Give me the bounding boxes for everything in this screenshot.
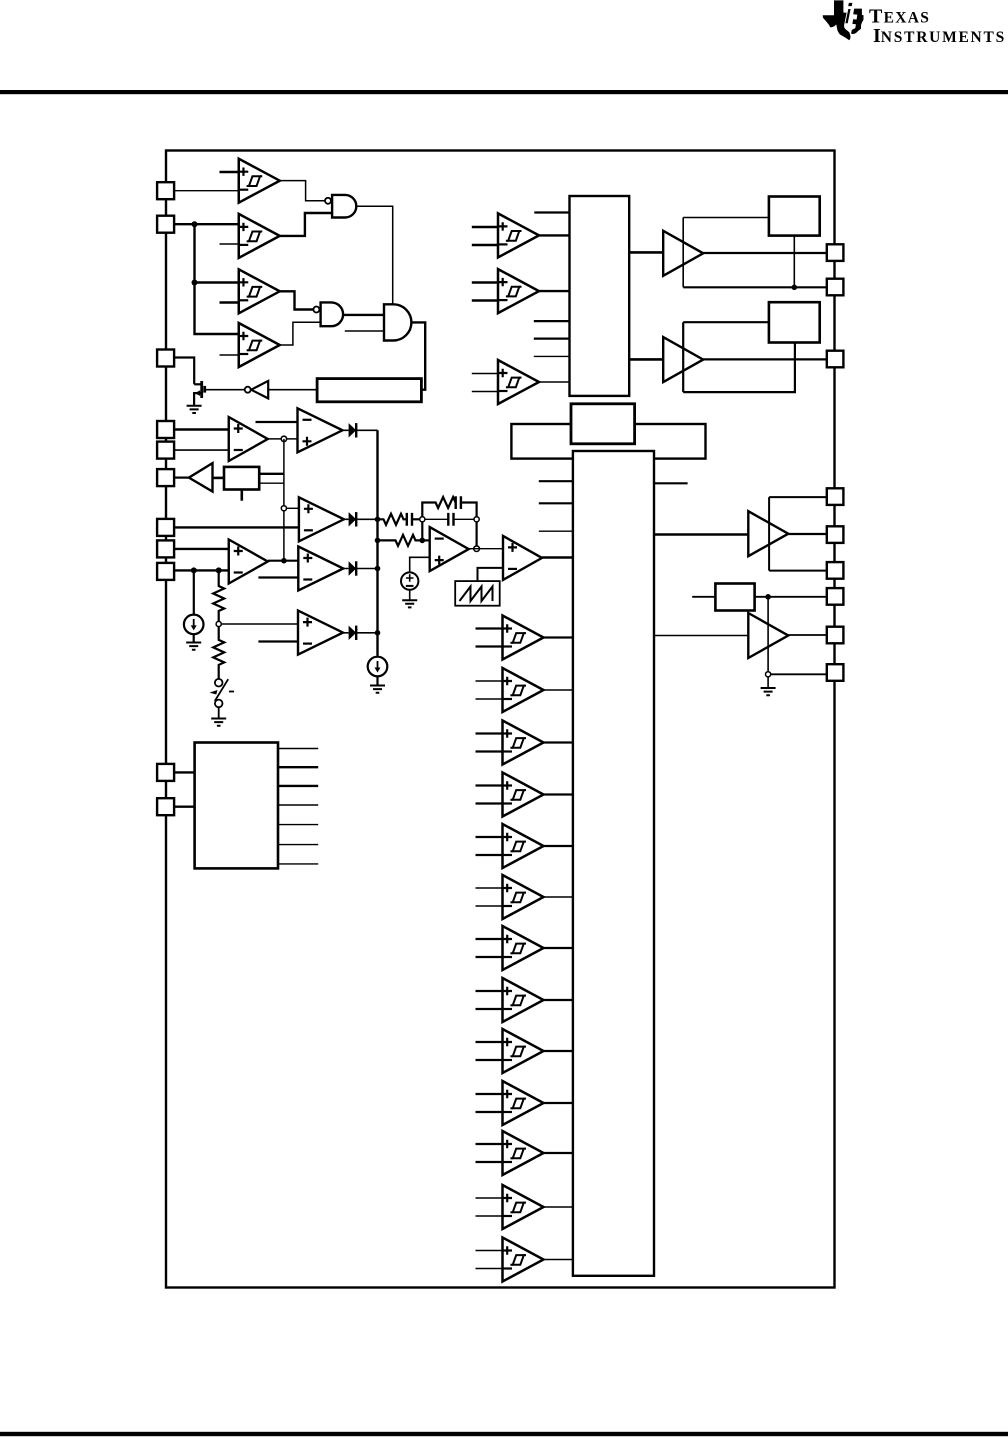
vertical rail from U1 output down to U3 output junction [283, 439, 285, 561]
wire T1 loop top to pin RA [769, 496, 827, 498]
wire C6a output [544, 896, 573, 898]
comparator C10a [503, 1081, 544, 1125]
wire BX1 output upper to rail [259, 473, 284, 475]
wire J2 to comparator C noninv input [195, 281, 239, 283]
wire T3 output to pin R1 [703, 252, 827, 254]
VREF plus glyph [406, 574, 414, 582]
ground G-I1 [186, 643, 201, 650]
node bus/error-amp row [375, 538, 381, 544]
wire C3a output [544, 741, 573, 743]
wire G1 output down to gate G3 top input [356, 206, 392, 304]
op-amp U5 [298, 611, 343, 655]
node BX7 stub on R2 wire [792, 285, 798, 291]
comparator C7a inverting stub [476, 956, 503, 958]
comparator H2 [498, 269, 539, 313]
comparator D [239, 323, 280, 367]
wire C4a output [544, 793, 573, 795]
wire P7 to op-amp U2b inverting (long) [174, 526, 299, 528]
wire R3 to capacitor C1 [406, 518, 407, 520]
bubble on G2 top input [313, 307, 319, 313]
comparator C2a noninv stub [476, 680, 503, 682]
pin P2 [157, 216, 174, 233]
wire U1 output to rail node [268, 438, 298, 440]
wire INV1 output to MOSFET gate [206, 389, 245, 391]
comparator C1a noninv stub [476, 627, 503, 629]
transistor Q1 [194, 381, 205, 406]
diode D3 [349, 561, 357, 575]
current source I1 [184, 615, 204, 635]
BX10 output stub 5 [278, 824, 318, 826]
wire U2 output through D1 to bus [343, 429, 378, 431]
wire G3 output to delay box right end [412, 322, 426, 389]
pin R2 [827, 279, 844, 296]
comparator C9a noninv stub [476, 1041, 503, 1043]
bubble on INV1 output [245, 387, 251, 393]
wire BX6 to driver T3 [629, 251, 663, 254]
op-amp U2b [299, 497, 344, 541]
wire U5 output through D4 to bus [343, 632, 378, 634]
wire C9a output [544, 1050, 573, 1052]
gate G2 AND with inverted top input [321, 302, 344, 326]
wire comparator B output to gate G1 bottom input [280, 213, 332, 236]
wire P5 to op-amp U1 inverting [174, 449, 229, 451]
VREF minus glyph [406, 585, 414, 587]
voltage source VREF [401, 572, 418, 589]
wire J3 down to current source I1 [193, 570, 195, 614]
wire C1 to node N1 [412, 518, 422, 520]
wire H2 output to BX6 [539, 290, 570, 292]
box BX2 [571, 404, 635, 444]
wire T4 loop bottom up to BX8 bottom [683, 343, 795, 393]
wire G3 third input stub [345, 330, 384, 332]
BX4 right stub [654, 482, 688, 484]
wire VREF to ground [409, 590, 411, 600]
comparator C4a noninv stub [476, 784, 503, 786]
BX6 left stub 4 [534, 355, 570, 357]
comparator C8a inverting stub [476, 1008, 503, 1010]
node N2 at error amp inverting input [420, 538, 426, 544]
wire delay box to inverter input [268, 389, 317, 391]
node J2 feeding comparator C noninv [192, 280, 198, 286]
wide box BX3 [511, 424, 705, 459]
wire C1a output [544, 636, 573, 638]
driver T4 loop vertical [682, 322, 684, 392]
comparator C2a inverting stub [476, 698, 503, 700]
wire C11a output [544, 1152, 573, 1154]
switch SW1 blade [215, 679, 228, 701]
node C2/output vertical (open) [474, 517, 479, 522]
pin RE [827, 627, 844, 644]
gate G1 AND with inverted top input [332, 195, 356, 218]
comparator C9a inverting stub [476, 1059, 503, 1061]
pin RF [827, 664, 844, 681]
wire T4 output to pin R3 [703, 358, 827, 360]
comparator C6a noninv stub [476, 887, 503, 889]
comparator C5a inverting stub [476, 854, 503, 856]
wire OSC to PWM comparator inverting [478, 568, 504, 581]
wire T1 loop bottom to pin RC [769, 570, 827, 572]
wire T2 output to pin RE [788, 634, 827, 636]
BX4 left stub 2 [539, 502, 573, 504]
switch SW1 dash [229, 691, 234, 693]
pin P8 [157, 540, 174, 557]
wire G2 output to gate G3 middle input [344, 314, 385, 316]
comparator C5a noninv stub [476, 836, 503, 838]
vertical from BX5 node down through T2 [767, 597, 769, 675]
wire N1 to capacitor C2 (thin) [425, 518, 448, 520]
comparator C6a [503, 875, 544, 919]
wire P4 to op-amp U1 noninv [174, 428, 229, 430]
BX4 left stub 3 [539, 530, 573, 532]
comparator H1 noninv stub [472, 226, 498, 228]
wire B1 to box BX1 [213, 477, 225, 480]
resistor R3 (bus row to comp input) [378, 514, 406, 525]
comparator C4a inverting stub [476, 802, 503, 804]
pin P4 [157, 421, 174, 438]
gate G3 AND [384, 304, 411, 340]
comparator H1 [498, 213, 539, 257]
node on U1 output at rail (open) [281, 436, 286, 441]
PWM comparator CMP0 [503, 536, 542, 580]
op-amp U1 [229, 417, 268, 461]
resistor R2 (vertical) [213, 627, 224, 679]
error amp EA [430, 527, 469, 571]
BX10 output stub 6 [278, 844, 318, 846]
wire loop top to box BX7 [683, 217, 769, 219]
BX10 output stub 1 [278, 748, 318, 750]
driver T1 [748, 511, 788, 556]
comparator C11a [503, 1131, 544, 1175]
wire BX4 to driver T1 [654, 533, 748, 536]
wire H3 output to BX6 [539, 381, 570, 383]
box BX1 [224, 467, 259, 490]
wire J5 to op-amp U5 noninv [221, 623, 298, 625]
box BX5 [715, 584, 754, 611]
TI logo bug [823, 0, 864, 40]
capacitor C3 [456, 496, 461, 509]
comparator H2 noninv stub [472, 281, 498, 283]
node BX5 output [765, 594, 771, 600]
op-amp U2 [298, 408, 343, 452]
switch SW1 arrow [210, 690, 218, 695]
pin R1 [827, 244, 844, 261]
pin RB [827, 526, 844, 543]
wire C8a output [544, 999, 573, 1001]
pin P7 [157, 519, 174, 536]
BX4 left stub 1 [539, 480, 573, 482]
wire P11 to block BX10 [174, 806, 195, 808]
ground G-SW1 [211, 719, 226, 726]
T1 loop vertical [768, 497, 770, 570]
comparator C5a [503, 824, 544, 868]
footer rule [0, 1432, 1008, 1436]
diagram frame [166, 151, 835, 1288]
capacitor C1 [407, 513, 412, 526]
op-amp U3 [229, 540, 268, 584]
op-amp U5 inverting stub [258, 640, 298, 642]
resistor R1 (vertical) [213, 570, 224, 624]
pin P11 [157, 798, 174, 815]
delay box DB1 [317, 379, 421, 402]
pin P5 [157, 442, 174, 459]
BX10 output stub 2 [278, 766, 318, 768]
box BX5 input stub [692, 596, 715, 598]
wire comparator D output to gate G2 bottom input [280, 322, 321, 345]
comparator C6a inverting stub [476, 905, 503, 907]
wire comparator A output to gate G1 top input [280, 181, 325, 201]
wire comparator A noninv stub [220, 171, 239, 173]
wire node to pin RF [771, 673, 827, 675]
comparator C11a inverting stub [476, 1161, 503, 1163]
wire C10a output [544, 1102, 573, 1104]
pin P10 [157, 764, 174, 781]
node J4 on P9 wire (resistor tap) [216, 567, 222, 573]
buffer B1 (points left) [189, 463, 213, 491]
wire comparator B inverting stub [220, 243, 239, 245]
wire T1 output to pin RB [788, 533, 827, 535]
wire SW1 to ground [218, 707, 220, 718]
comparator C12a noninv stub [476, 1197, 503, 1199]
wire C3 to output vertical [461, 503, 477, 517]
wire H1 output to BX6 [539, 234, 570, 236]
wire C13a output [544, 1259, 573, 1261]
svg-text:INSTRUMENTS: INSTRUMENTS [873, 25, 1006, 47]
op-amp U4 [298, 547, 343, 591]
comparator C13a inverting stub [476, 1268, 503, 1270]
comparator C1a [503, 616, 544, 660]
wire C7a output [544, 947, 573, 949]
BX1 bottom stub [241, 490, 244, 501]
current source I2 at bus bottom [368, 657, 388, 677]
comparator H3 noninv stub [472, 373, 498, 375]
BX10 output stub 3 [278, 785, 318, 787]
wire T4 loop top to box BX8 [683, 321, 769, 323]
pin R3 [827, 351, 844, 368]
comparator C8a noninv stub [476, 990, 503, 992]
BX6 left stub 1 [534, 211, 569, 213]
wire BX4 to driver T2 [654, 635, 748, 637]
ground G-I2 [370, 686, 385, 693]
wire C12a output [544, 1206, 573, 1208]
wire loop bottom to pin R2 [683, 286, 827, 288]
comparator C7a [503, 926, 544, 970]
oscillator box OSC with sawtooth [455, 581, 500, 606]
sawtooth waveform [460, 587, 493, 602]
wire C5a output [544, 845, 573, 847]
comparator H3 inverting stub [472, 391, 498, 393]
pin RD [827, 588, 844, 605]
wire P3 to Q1 drain [174, 358, 194, 385]
feedback loop top: N1 up, resistor R4, cap C3, down to output node [422, 497, 456, 517]
Q1 source arrow [195, 390, 200, 396]
ground G-Q1 [187, 406, 202, 413]
wire Vref to EA noninv input [410, 557, 430, 572]
capacitor C2 [448, 513, 453, 526]
wire BX5 output to pin RD [755, 596, 827, 598]
comparator C2a [503, 668, 544, 712]
diode D2 [349, 512, 357, 526]
wire U3 output to rail junction and on to U4 noninv [268, 560, 299, 562]
comparator C13a [503, 1238, 544, 1282]
wire I2 to ground [376, 676, 378, 685]
node (open) on rail feeding op-amp U2b noninv [281, 506, 286, 511]
wire rail to U2b noninv [287, 507, 299, 509]
wire P10 to block BX10 [174, 771, 195, 773]
comparator C4a [503, 773, 544, 817]
BX6 left stub 3 [534, 338, 570, 340]
wire output vertical lower segment [476, 522, 478, 549]
wire EA output to PWM comparator noninv [469, 548, 503, 550]
box BX7 [769, 197, 820, 236]
ground G-VREF [402, 600, 417, 607]
wire P9 to op-amp U3 inverting [174, 569, 229, 571]
node EA output (open) [474, 546, 480, 552]
BX6 left stub 2 [534, 320, 570, 322]
wire I1 to ground [193, 634, 195, 642]
block BX10 [195, 743, 278, 869]
wire CMP0 output to PWM logic box [542, 556, 573, 558]
comparator C1a inverting stub [476, 645, 503, 647]
node U3 output on rail [281, 558, 287, 564]
pin P3 [157, 350, 174, 367]
node bus/D2 row [375, 517, 381, 523]
node bus/D4 row [375, 630, 381, 636]
wire P2 to comparator B noninv input [174, 223, 239, 225]
BX10 output stub 7 [278, 863, 318, 865]
comparator C [239, 269, 280, 313]
comparator H1 inverting stub [472, 244, 498, 246]
BX7 bottom stub to R2 wire [793, 236, 795, 288]
driver T3 bootstrap loop vertical [682, 218, 684, 288]
wire N2 to error amp EA inverting input [422, 539, 429, 541]
wire U2b output through D2 to bus [344, 518, 378, 520]
comparator H2 inverting stub [472, 299, 498, 301]
comparator H3 [498, 360, 539, 404]
op-amp U4 inverting stub [258, 576, 298, 578]
pin P9 [157, 563, 174, 580]
wire P1 to comparator A inverting input [174, 190, 239, 192]
switch SW1 bottom contact [215, 700, 223, 708]
wire C2a output [544, 689, 573, 691]
node bus/D3 row [375, 566, 381, 572]
comparator C3a noninv stub [476, 732, 503, 734]
pin RA [827, 488, 844, 505]
resistor R5 (bus to N2) [378, 535, 423, 546]
wire comparator D inverting stub [220, 354, 239, 356]
node J3 on P9 wire (current source tap) [191, 567, 197, 573]
driver T3 [663, 231, 703, 276]
wire U4 output through D3 to bus [343, 568, 377, 570]
wire node to ground [767, 677, 769, 688]
PWM logic box BX4 (tall) [573, 451, 654, 1276]
comparator A [239, 159, 280, 203]
node N1 (open) [420, 517, 425, 522]
wire vertical J1 to comparator D noninv [195, 224, 239, 334]
comparator C9a [503, 1029, 544, 1073]
comparator B [239, 214, 280, 258]
bubble on G1 top input [325, 198, 331, 204]
node J1 on P2 wire [192, 221, 198, 227]
wire comparator C output to gate G2 top input [280, 291, 314, 309]
inverter INV1 (points left) [251, 381, 268, 399]
wire BX1 output lower to rail [259, 482, 284, 484]
comparator C7a noninv stub [476, 938, 503, 940]
comparator C3a [503, 721, 544, 765]
driver T2 [748, 613, 788, 658]
wire P6 to buffer B1 [174, 477, 189, 479]
comparator C10a noninv stub [476, 1093, 503, 1095]
node at ground tap (open) [766, 672, 771, 677]
comparator C12a inverting stub [476, 1215, 503, 1217]
wire N1 down to error amp inverting row [421, 522, 423, 541]
box BX8 [769, 302, 820, 342]
comparator C13a noninv stub [476, 1250, 503, 1252]
comparator C10a inverting stub [476, 1111, 503, 1113]
header rule [0, 90, 1008, 94]
wire C2 to output node vertical [454, 518, 477, 520]
diode D4 [349, 626, 357, 640]
comparator C11a noninv stub [476, 1143, 503, 1145]
BX10 output stub 4 [278, 804, 318, 806]
ground G-RF [761, 688, 776, 695]
wire BX6 to driver T4 [629, 358, 663, 361]
comparator C8a [503, 978, 544, 1022]
pin RC [827, 562, 844, 579]
comparator C12a [503, 1185, 544, 1229]
wire P8 to op-amp U3 noninv [174, 548, 229, 550]
pin P6 [157, 469, 174, 486]
node J5 (open) below R1 [216, 621, 221, 626]
comparator C3a inverting stub [476, 750, 503, 752]
control logic box BX6 [570, 196, 630, 396]
diode-or bus [376, 430, 378, 656]
op-amp U2 inverting stub [256, 421, 298, 423]
wire comparator C inverting stub [220, 301, 239, 303]
driver T4 [663, 337, 703, 382]
switch SW1 top contact [215, 679, 223, 687]
diode D1 [349, 423, 357, 437]
pin P1 [157, 182, 174, 199]
